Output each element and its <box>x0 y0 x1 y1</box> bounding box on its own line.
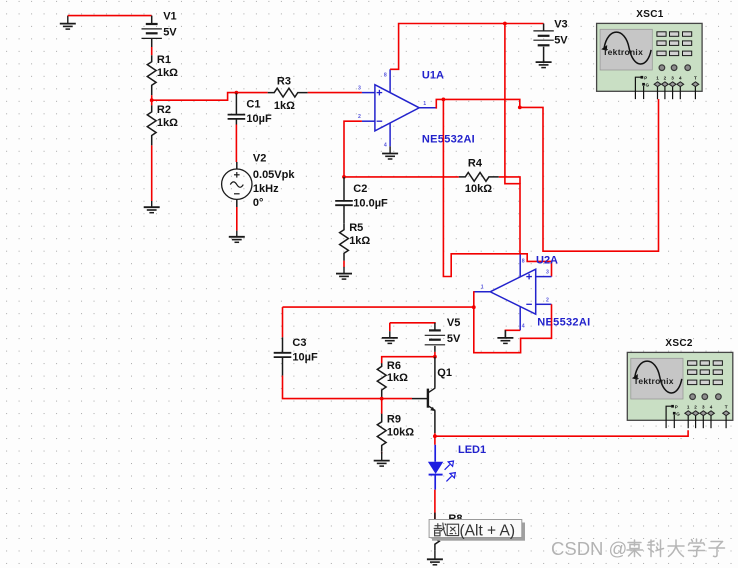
resistor R6 <box>377 360 408 397</box>
wire C2 top stem <box>343 177 345 201</box>
svg-text:1kΩ: 1kΩ <box>157 67 178 79</box>
wire node B to R3 <box>236 92 267 94</box>
wire R5 to ground stub <box>343 261 345 268</box>
wire U2A output follower feedback <box>473 292 551 353</box>
node E <box>518 106 522 110</box>
transistor Q1 <box>412 357 452 434</box>
watermark CSDN @某科大学子 <box>551 538 725 559</box>
svg-text:1: 1 <box>423 101 426 107</box>
wire node F to R4 <box>344 176 459 178</box>
svg-text:4: 4 <box>522 323 525 329</box>
svg-text:10µF: 10µF <box>246 113 272 125</box>
wire R2 to ground <box>151 145 153 201</box>
node J (emitter node) <box>433 434 437 438</box>
capacitor C3 <box>274 337 318 364</box>
battery V1 <box>142 11 178 39</box>
svg-text:3: 3 <box>546 270 549 276</box>
svg-text:10kΩ: 10kΩ <box>387 426 414 438</box>
resistor R3 <box>268 75 308 112</box>
wire V1 bottom stem <box>151 38 153 47</box>
svg-text:8: 8 <box>522 259 525 265</box>
svg-text:V1: V1 <box>163 11 176 23</box>
wire emitter to XSC2 channel 1 <box>435 430 688 436</box>
svg-text:NE5532AI: NE5532AI <box>422 133 475 145</box>
wire U2A output to C3 <box>283 306 474 308</box>
svg-text:R4: R4 <box>468 157 483 169</box>
wire C3 bottom stem <box>282 358 284 376</box>
wire V5 bottom stem <box>434 346 436 352</box>
svg-text:V5: V5 <box>447 317 460 329</box>
wire LED to R8 <box>434 490 436 521</box>
capacitor C1 <box>228 99 272 125</box>
resistor R9 <box>377 413 414 451</box>
svg-text:CSDN @: CSDN @ <box>551 538 627 559</box>
ground (under R9) <box>374 452 390 467</box>
node H (collector supply) <box>433 355 437 359</box>
svg-text:5V: 5V <box>447 333 461 345</box>
resistor R4 <box>459 157 499 195</box>
wire XSC1 pin 1 stub <box>658 98 660 101</box>
wire C1 bottom stem <box>235 120 237 125</box>
wire R3 to U1A + <box>308 92 362 94</box>
wire U1A output to U2A + input <box>443 99 551 276</box>
svg-text:R2: R2 <box>157 104 171 116</box>
svg-text:5V: 5V <box>163 26 177 38</box>
node C (V3 rail) <box>503 22 507 26</box>
svg-text:R6: R6 <box>387 360 401 372</box>
ground (top left) <box>60 16 76 30</box>
svg-text:(Alt + A): (Alt + A) <box>460 522 516 539</box>
svg-text:R5: R5 <box>349 222 363 234</box>
svg-text:2: 2 <box>358 114 361 120</box>
wire V1 top to ground <box>68 15 152 17</box>
ground (under V3) <box>536 60 552 68</box>
svg-text:R1: R1 <box>157 54 171 66</box>
svg-text:0.05Vpk: 0.05Vpk <box>253 169 295 181</box>
wire U1A pin 8 to V3 rail <box>390 24 543 70</box>
op-amp U2A <box>473 254 590 330</box>
svg-text:Q1: Q1 <box>437 367 452 379</box>
node B (C1 top) <box>235 91 239 95</box>
wire R1 to node <box>151 95 153 105</box>
wire C3 top <box>282 307 284 337</box>
resistor R8 body <box>431 513 440 551</box>
wire U1A output to XSC1 channel 1 <box>436 99 659 251</box>
node G (U2A output) <box>472 305 476 309</box>
svg-text:10µF: 10µF <box>292 352 318 364</box>
ground (under R8) <box>427 550 443 565</box>
wire V1 top stem <box>151 16 153 24</box>
svg-text:1: 1 <box>481 284 484 290</box>
svg-text:V3: V3 <box>554 19 567 31</box>
wire C1 to V2 <box>235 125 237 163</box>
tooltip 截图(Alt + A) <box>429 520 525 541</box>
wire V1 to R1 <box>151 47 153 55</box>
resistor R1 <box>147 54 178 95</box>
wire emitter to LED <box>434 433 436 445</box>
resistor R2 <box>147 104 178 145</box>
svg-text:1kHz: 1kHz <box>253 183 279 195</box>
node A (R1/R2 junction) <box>150 98 154 102</box>
svg-text:NE5532AI: NE5532AI <box>537 317 590 329</box>
wire R6 to base node <box>381 398 383 399</box>
battery V3 <box>533 19 568 47</box>
svg-text:3: 3 <box>358 86 361 92</box>
ground (under V2) <box>229 231 245 243</box>
svg-text:LED1: LED1 <box>458 444 486 456</box>
wire V5 top <box>390 323 435 324</box>
wire V2 to ground <box>236 207 238 231</box>
wire C2 to R5 <box>343 206 345 223</box>
wire supply rail to U2A pin 8 <box>505 24 520 255</box>
wire V3 bottom stem <box>543 47 545 62</box>
ground (V5) <box>382 331 398 343</box>
oscilloscope XSC1 <box>597 9 703 99</box>
svg-text:4: 4 <box>384 143 387 149</box>
wire V5 ground wire <box>389 323 391 331</box>
svg-text:10kΩ: 10kΩ <box>465 183 492 195</box>
node I (Q1 base node) <box>380 397 384 401</box>
ground (under R5) <box>336 267 352 279</box>
svg-text:XSC1: XSC1 <box>636 9 663 20</box>
wire U2A pin 4 to ground <box>505 329 520 332</box>
svg-text:10.0µF: 10.0µF <box>353 197 388 209</box>
capacitor C2 <box>335 183 388 209</box>
svg-text:C1: C1 <box>246 99 260 111</box>
svg-text:U2A: U2A <box>536 254 558 266</box>
svg-text:1kΩ: 1kΩ <box>157 117 178 129</box>
ground (under R2) <box>144 201 160 213</box>
battery V5 <box>425 317 461 345</box>
svg-text:R3: R3 <box>277 75 291 87</box>
wire node A to C1 top <box>152 93 237 101</box>
wire R4 to supply <box>499 177 520 184</box>
svg-text:1kΩ: 1kΩ <box>387 372 408 384</box>
node F (inverting node) <box>342 175 346 179</box>
svg-text:5V: 5V <box>554 34 568 46</box>
ground (U1A pin 4) <box>382 146 398 159</box>
svg-text:2: 2 <box>546 297 549 303</box>
node D (U1A output) <box>442 98 446 102</box>
svg-text:R9: R9 <box>387 413 401 425</box>
wire V3 top stem <box>543 24 545 32</box>
wire U1A - input feedback <box>344 121 362 177</box>
svg-text:0°: 0° <box>253 197 264 209</box>
wire V5 to collector node <box>434 352 436 357</box>
wire C1 top stem <box>235 93 237 114</box>
wire V5 top stem <box>434 323 436 331</box>
wire U2A pin4 stem <box>504 330 506 338</box>
LED LED1 <box>428 444 486 490</box>
wire C3 top stem <box>282 337 284 352</box>
ground (U2A pin 4) <box>497 330 513 343</box>
svg-text:V2: V2 <box>253 152 266 164</box>
svg-text:XSC2: XSC2 <box>665 338 692 349</box>
svg-text:C3: C3 <box>292 337 306 349</box>
svg-text:8: 8 <box>384 72 387 78</box>
resistor R5 <box>340 222 371 261</box>
wire C3 to Q1 base node <box>283 376 413 399</box>
op-amp U1A <box>358 69 475 148</box>
wire collector node to R6 <box>382 357 435 364</box>
wire base node to R9 <box>381 399 383 414</box>
svg-text:U1A: U1A <box>422 70 444 82</box>
svg-text:C2: C2 <box>353 183 367 195</box>
svg-text:1kΩ: 1kΩ <box>274 100 295 112</box>
wire R9 to ground stub <box>381 452 383 454</box>
oscilloscope XSC2 <box>627 338 733 428</box>
AC source V2 <box>222 152 296 209</box>
svg-text:1kΩ: 1kΩ <box>349 235 370 247</box>
